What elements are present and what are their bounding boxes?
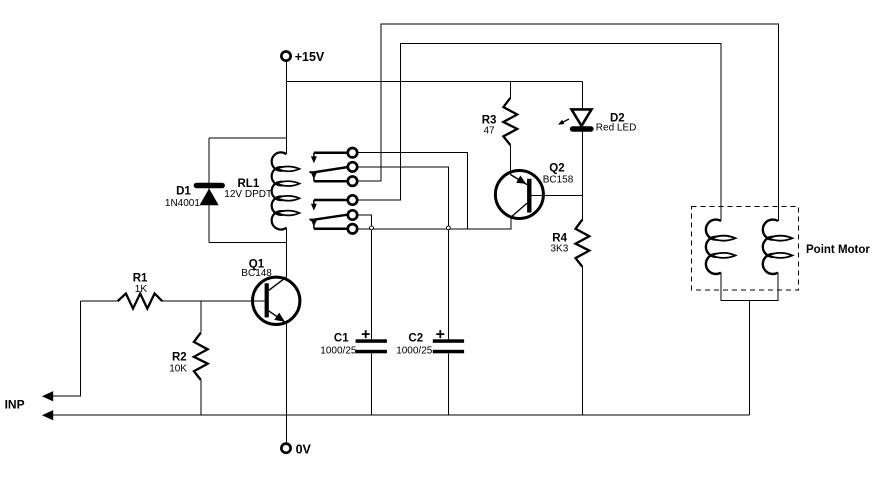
wire +15V down to relay coil — [285, 61, 287, 154]
wire ground bus — [53, 414, 749, 416]
relay RL1 contact pole 2 — [309, 200, 347, 229]
wire Q1 emitter to 0V — [285, 323, 287, 442]
resistor R3 top lead — [509, 81, 511, 98]
terminal 0V — [281, 444, 290, 453]
svg-text:R1: R1 — [133, 273, 148, 285]
wire +15V rail to R3 and D2 — [286, 80, 582, 82]
wire point motor coils common bottom — [721, 273, 778, 301]
relay contact pin COM2 — [348, 210, 357, 219]
wire NO2 to point motor left coil — [358, 44, 721, 222]
wire D1 bottom branch — [209, 242, 286, 244]
wire NO1 to Q2 collector bus — [358, 153, 468, 229]
resistor R4 top lead — [581, 195, 583, 219]
svg-text:3K3: 3K3 — [551, 243, 569, 254]
wire INP upper to R1 — [53, 301, 80, 396]
point motor right coil — [763, 220, 793, 274]
svg-text:1K: 1K — [135, 284, 148, 295]
wire D1 vertical branch — [208, 138, 210, 242]
wire R4 bottom to ground bus — [581, 267, 583, 415]
svg-text:1000/25: 1000/25 — [320, 346, 357, 357]
capacitor C1 — [356, 330, 387, 353]
svg-text:10K: 10K — [169, 363, 187, 374]
transistor Q1 BC148 — [253, 277, 300, 325]
wire NC2 to Q2 collector — [358, 218, 511, 229]
resistor R2 — [194, 333, 208, 380]
svg-text:D1: D1 — [176, 186, 191, 198]
led D2 — [558, 109, 592, 129]
wire C1 bottom to ground bus — [371, 353, 373, 415]
wire R3 to Q2 emitter — [509, 145, 511, 175]
junction C2 bus — [447, 226, 451, 230]
resistor R2 top lead — [200, 301, 202, 333]
svg-text:Red LED: Red LED — [596, 123, 637, 134]
svg-text:Point Motor: Point Motor — [806, 244, 870, 256]
resistor R3 — [503, 98, 517, 145]
diode D1 (cathode bar and anode triangle) — [197, 186, 223, 206]
point motor left coil — [706, 220, 736, 274]
relay RL1 coil — [272, 152, 300, 229]
svg-text:BC148: BC148 — [241, 268, 272, 279]
relay contact pin COM1 — [348, 162, 357, 171]
wire relay coil bottom to Q1 collector — [285, 228, 287, 277]
relay contact pin NC2 — [348, 224, 357, 233]
wire COM1 to C2 top — [358, 167, 449, 339]
led D2 top lead — [581, 81, 583, 109]
svg-text:C2: C2 — [408, 333, 423, 345]
svg-text:0V: 0V — [296, 442, 312, 456]
svg-text:INP: INP — [5, 398, 25, 412]
svg-text:Q2: Q2 — [549, 162, 564, 174]
input arrow INP lower — [42, 410, 53, 420]
wire C2 bottom to ground bus — [447, 353, 449, 415]
svg-text:R2: R2 — [172, 351, 187, 363]
relay contact pin NO1 — [348, 148, 357, 157]
wire NC1 to point motor right coil — [358, 24, 779, 221]
capacitor C2 — [433, 330, 464, 353]
svg-text:1000/25: 1000/25 — [396, 346, 433, 357]
svg-text:BC158: BC158 — [543, 174, 574, 185]
relay contact pin NO2 — [348, 195, 357, 204]
wire D1 top branch — [209, 137, 286, 139]
input arrow INP upper — [42, 391, 53, 401]
svg-text:12V DPDT: 12V DPDT — [224, 189, 272, 200]
relay RL1 contact pole 1 — [309, 153, 347, 182]
wire COM2 to C1 top — [358, 215, 372, 339]
wire Q2 base to D2/R4 node — [532, 194, 583, 196]
svg-text:1N4001: 1N4001 — [165, 198, 200, 209]
resistor R1 — [80, 294, 264, 309]
svg-text:47: 47 — [484, 126, 496, 137]
svg-text:C1: C1 — [334, 333, 349, 345]
svg-text:+15V: +15V — [295, 50, 325, 64]
transistor Q2 BC158 — [495, 171, 543, 219]
relay contact pin NC1 — [348, 177, 357, 186]
wire D2 cathode to Q2 base node — [581, 132, 583, 196]
wire R2 bottom to ground bus — [200, 380, 202, 415]
wire point motor return to ground bus — [749, 300, 751, 415]
terminal +15V — [281, 52, 290, 61]
point motor dashed enclosure — [691, 207, 798, 290]
junction C1 bus — [370, 226, 374, 230]
resistor R4 — [576, 220, 590, 267]
